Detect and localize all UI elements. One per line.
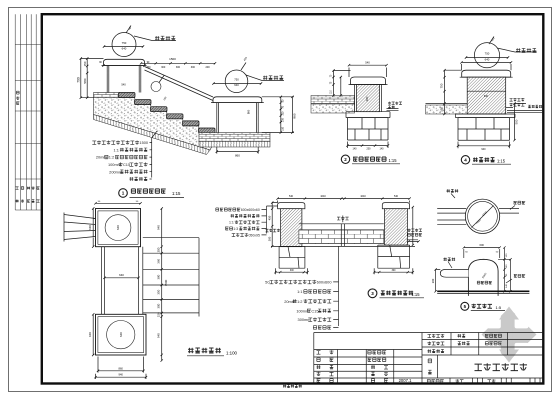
- svg-text:940: 940: [481, 148, 486, 151]
- lower pillar cap: [213, 97, 262, 103]
- svg-text:1500: 1500: [139, 140, 148, 145]
- svg-text:600x600: 600x600: [317, 279, 333, 284]
- pillar body hatched: [467, 77, 506, 114]
- center post: [337, 217, 349, 220]
- svg-text:C15: C15: [123, 162, 130, 167]
- svg-text:380: 380: [157, 274, 161, 279]
- svg-text:750: 750: [485, 51, 490, 55]
- left paving: [311, 96, 355, 105]
- right pillar: [382, 203, 409, 209]
- callout circle upper: [112, 33, 136, 57]
- svg-text:640: 640: [484, 95, 489, 98]
- svg-text:20mm: 20mm: [284, 299, 295, 304]
- caption 2: [341, 155, 349, 163]
- svg-text:1:15: 1:15: [497, 159, 506, 164]
- svg-text:500: 500: [515, 119, 519, 124]
- svg-text:860: 860: [247, 109, 251, 114]
- svg-text:750: 750: [122, 41, 127, 45]
- right notes: [510, 98, 525, 101]
- left title strip table: [15, 14, 40, 210]
- watermark logo: [482, 308, 537, 361]
- svg-text:540: 540: [365, 61, 370, 65]
- svg-text:450: 450: [267, 215, 271, 220]
- svg-text:640: 640: [485, 57, 490, 61]
- svg-text:640: 640: [116, 225, 120, 230]
- cap: [351, 77, 386, 85]
- svg-text:300: 300: [191, 66, 196, 69]
- lower square pillar: [96, 314, 147, 355]
- svg-text:380: 380: [365, 96, 369, 101]
- note stack upper (wall build-up): [216, 208, 241, 211]
- upper pillar cap: [104, 59, 145, 65]
- cap: [462, 70, 511, 77]
- cap plan circle detail: [465, 199, 499, 233]
- svg-text:300: 300: [267, 236, 271, 241]
- svg-text:540: 540: [394, 195, 399, 198]
- svg-text:1:1: 1:1: [297, 289, 302, 294]
- caption plan: [188, 348, 221, 353]
- svg-text:940: 940: [88, 332, 92, 337]
- svg-text:2007.1: 2007.1: [399, 378, 412, 383]
- svg-text:940: 940: [157, 225, 161, 230]
- upper square pillar: [96, 209, 141, 247]
- svg-text:1040: 1040: [320, 195, 326, 198]
- svg-text:540: 540: [289, 195, 294, 198]
- svg-text:300: 300: [176, 66, 181, 69]
- handrail slope: [151, 82, 161, 92]
- svg-text:140: 140: [353, 148, 358, 151]
- svg-text:1500: 1500: [169, 57, 176, 61]
- svg-text:1:100: 1:100: [226, 351, 238, 356]
- svg-text:700: 700: [77, 77, 81, 83]
- svg-text:150: 150: [282, 126, 285, 131]
- svg-text:1:5: 1:5: [496, 305, 502, 310]
- svg-text:050x95: 050x95: [248, 233, 260, 237]
- left ground: [426, 105, 468, 114]
- svg-text:100mm: 100mm: [108, 162, 121, 167]
- svg-text:600x600x60: 600x600x60: [241, 208, 260, 212]
- svg-text:140: 140: [380, 148, 385, 151]
- labels: [447, 189, 459, 192]
- stair treads: [119, 93, 136, 98]
- rail bar: [440, 269, 468, 277]
- leader line: [262, 206, 339, 328]
- svg-text:750: 750: [440, 83, 444, 88]
- svg-text:750: 750: [234, 78, 239, 82]
- ground: [437, 290, 529, 292]
- understair rubble: [94, 98, 215, 151]
- svg-text:940: 940: [88, 225, 92, 230]
- svg-text:C15: C15: [311, 308, 318, 313]
- svg-text:940: 940: [157, 333, 161, 338]
- foundation: [458, 118, 510, 141]
- foundations: [279, 245, 410, 268]
- caption 5: [461, 302, 469, 310]
- svg-text:600: 600: [480, 243, 485, 247]
- svg-text:640: 640: [119, 273, 124, 277]
- callout circle: [474, 43, 499, 68]
- svg-text:350: 350: [157, 289, 161, 294]
- svg-text:100: 100: [282, 118, 285, 123]
- svg-text:540: 540: [121, 83, 126, 87]
- callout circle lower: [225, 70, 248, 93]
- svg-text:860: 860: [119, 366, 124, 370]
- build-up notes: [92, 141, 139, 145]
- svg-text:200: 200: [367, 148, 372, 151]
- svg-text:1:15: 1:15: [389, 158, 398, 163]
- svg-text:860: 860: [235, 154, 240, 158]
- foundation: [348, 118, 389, 140]
- svg-text:1: 1: [122, 191, 125, 196]
- caption 1: [119, 189, 128, 198]
- svg-text:580: 580: [83, 78, 87, 83]
- svg-text:1:15: 1:15: [172, 191, 181, 196]
- svg-text:300: 300: [157, 303, 161, 308]
- svg-text:860: 860: [292, 113, 296, 118]
- title block: [314, 333, 544, 384]
- caption 3: [368, 289, 377, 298]
- sheet title: [475, 363, 528, 370]
- right notes: [408, 229, 422, 232]
- pillar body hatched: [357, 85, 380, 112]
- svg-text:940: 940: [119, 373, 124, 377]
- svg-text:1040: 1040: [360, 195, 366, 198]
- svg-text:300: 300: [431, 278, 435, 283]
- left pillar: [278, 203, 305, 209]
- svg-text:640: 640: [119, 332, 123, 337]
- svg-text:100: 100: [282, 111, 285, 116]
- svg-text:150: 150: [83, 61, 87, 66]
- svg-text:100: 100: [440, 107, 444, 112]
- caption 4: [461, 156, 469, 164]
- svg-text:200: 200: [206, 66, 211, 69]
- svg-text:200: 200: [157, 247, 161, 252]
- svg-text:300: 300: [161, 66, 166, 69]
- svg-text:1:1: 1:1: [113, 147, 118, 152]
- rail top band: [299, 230, 384, 244]
- svg-text:1:1: 1:1: [229, 221, 234, 225]
- svg-text:640: 640: [122, 47, 127, 51]
- svg-text:1:2: 1:2: [297, 299, 302, 304]
- svg-text:1:3: 1:3: [233, 227, 238, 231]
- svg-text:1:2: 1:2: [109, 155, 114, 160]
- paving under pillar: [199, 133, 270, 142]
- svg-text:360: 360: [157, 258, 161, 263]
- svg-text:1:15: 1:15: [412, 292, 421, 297]
